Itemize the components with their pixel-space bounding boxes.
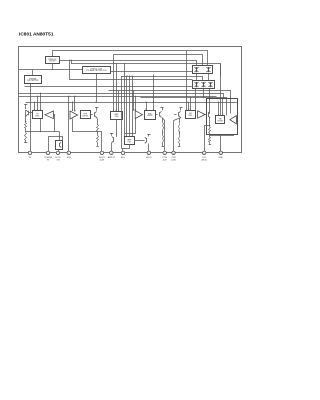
transistor Q3	[160, 107, 163, 109]
transistor Q4	[179, 107, 182, 109]
svg-text:8: 8	[148, 153, 149, 155]
svg-text:(L)V: (L)V	[163, 160, 168, 162]
svg-text:9V: 9V	[29, 157, 32, 159]
svg-text:AMP+B: AMP+B	[108, 156, 116, 159]
wire: A1 drops	[34, 102, 36, 111]
wire: SW2 drops	[195, 89, 197, 110]
regulator block REG5	[186, 111, 196, 119]
regulator block REG4	[145, 111, 156, 120]
error amp A5	[230, 116, 237, 124]
svg-text:IC801 AN80T51: IC801 AN80T51	[19, 32, 54, 38]
wire: SW1 to SW2	[196, 74, 198, 81]
wire: pin 12 riser	[220, 134, 222, 153]
pin 1	[28, 151, 31, 154]
wire: pin 2 riser	[49, 137, 63, 153]
svg-text:DRIVE: DRIVE	[147, 115, 153, 117]
svg-text:OUT: OUT	[128, 141, 133, 143]
wire: pin 9 riser	[164, 121, 166, 153]
inner block boundary	[207, 99, 238, 135]
svg-text:HVCC: HVCC	[146, 157, 152, 159]
regulator block REG3	[111, 112, 123, 120]
svg-text:REG: REG	[35, 115, 39, 117]
wire: bus y63	[72, 61, 221, 77]
pass transistor Q1	[24, 104, 27, 106]
svg-text:(L)W: (L)W	[100, 160, 105, 162]
driver transistor Q10	[147, 134, 150, 136]
wire: A3 feedback	[125, 119, 136, 134]
switch transistor block Q8	[56, 141, 63, 150]
wire: REG5 drops	[188, 102, 190, 110]
wire: protection to SW1	[110, 71, 193, 73]
VM drive block	[216, 116, 225, 124]
over voltage protection block	[83, 67, 111, 74]
pin 12	[219, 151, 222, 154]
output block	[125, 137, 135, 145]
svg-text:7: 7	[123, 153, 124, 155]
wire: chain to pin 11	[204, 125, 210, 127]
svg-text:3: 3	[58, 153, 59, 155]
svg-text:1: 1	[30, 153, 31, 155]
svg-text:4: 4	[68, 153, 69, 155]
wire: A2 feedback	[73, 119, 98, 132]
transistor Q2	[95, 107, 98, 109]
svg-text:STB: STB	[67, 157, 72, 159]
wire: bus y54	[114, 55, 203, 66]
pin 8	[147, 151, 150, 154]
wire: A1 output	[54, 115, 55, 132]
svg-text:2: 2	[48, 153, 49, 155]
resistor chain R2	[97, 120, 99, 125]
regulator block REG1	[33, 111, 43, 119]
wire: bus y76	[122, 77, 203, 81]
pin 2	[46, 151, 49, 154]
pin 10	[172, 151, 175, 154]
wire: standby bottom drop	[52, 64, 54, 70]
pin 11	[203, 151, 206, 154]
wire: Q8 to pin 3	[58, 149, 60, 153]
pin 7	[121, 151, 124, 154]
wire: pin 10 riser	[173, 121, 175, 153]
wire: REG3 drops	[113, 54, 115, 111]
wire: thermal top	[32, 70, 34, 76]
svg-text:ACL: ACL	[121, 156, 126, 159]
svg-text:ON: ON	[56, 160, 60, 162]
error amp A4	[198, 111, 205, 118]
svg-text:SUB: SUB	[115, 116, 119, 118]
wire: bus y96.2	[19, 96, 217, 98]
pin 9	[163, 151, 166, 154]
svg-text:VOLTAGE PROTECTION: VOLTAGE PROTECTION	[86, 69, 107, 72]
svg-text:11: 11	[203, 153, 205, 155]
resistor chain R1	[25, 116, 27, 123]
wire: VM drive drops	[218, 102, 220, 116]
wire: output block feeds	[121, 76, 123, 149]
wire: bus y97.7	[141, 98, 227, 116]
wire: standby bus top	[53, 51, 208, 66]
wire: A3 inputs	[133, 91, 135, 111]
wire: output to pin 7	[122, 145, 130, 149]
pin 4	[67, 151, 70, 154]
wire: A2 inputs	[72, 102, 74, 111]
regulator block REG2	[81, 111, 91, 119]
switch block SW2	[193, 81, 215, 89]
wire: Q10 to pin 8	[148, 144, 150, 153]
wire: pin 4 riser	[68, 96, 70, 153]
error amp A3	[135, 111, 142, 119]
svg-text:10: 10	[173, 153, 175, 155]
svg-text:12: 12	[220, 153, 222, 155]
svg-text:(BLK): (BLK)	[202, 160, 208, 162]
svg-text:5: 5	[101, 153, 102, 155]
error amp A1	[45, 111, 54, 119]
transistor Q9	[116, 119, 118, 133]
wire: pin 5 riser	[101, 132, 103, 153]
wire: protection drop	[96, 73, 98, 102]
svg-text:GND: GND	[218, 157, 223, 159]
wire: REG1 bottom drop	[40, 119, 42, 132]
standby control block	[46, 57, 60, 64]
thermal protection block	[25, 76, 42, 84]
svg-text:(L)W: (L)W	[171, 160, 176, 162]
wire: chain tap	[26, 131, 60, 133]
pin 3	[56, 151, 59, 154]
svg-text:REG: REG	[188, 115, 192, 117]
resistor chain R4	[179, 118, 181, 123]
pin 5	[100, 151, 103, 154]
svg-text:ON-OFF: ON-OFF	[49, 61, 55, 63]
svg-text:DRIVE: DRIVE	[83, 116, 89, 118]
svg-text:6: 6	[111, 153, 112, 155]
wire: bus y79.8	[70, 61, 193, 80]
wire: bus y102.1	[26, 102, 238, 104]
svg-text:DRIVE: DRIVE	[217, 120, 223, 122]
wire: bus y90.9	[109, 91, 231, 114]
svg-text:9: 9	[164, 153, 165, 155]
error amp A2	[70, 111, 78, 119]
IC outline	[19, 47, 242, 153]
pin 6	[110, 151, 113, 154]
resistor chain R5	[209, 117, 211, 127]
wire: bus y93.2	[19, 94, 224, 99]
wire: standby out bus	[60, 61, 197, 66]
resistor chain R3	[162, 118, 164, 122]
wire: thermal bottom to pin 1	[30, 84, 32, 153]
transistor Q5	[208, 112, 210, 116]
wire: bus y86.4	[25, 86, 193, 88]
switch block SW1	[193, 66, 213, 74]
svg-text:9V: 9V	[47, 160, 50, 162]
svg-text:PROTECTION: PROTECTION	[27, 80, 39, 82]
